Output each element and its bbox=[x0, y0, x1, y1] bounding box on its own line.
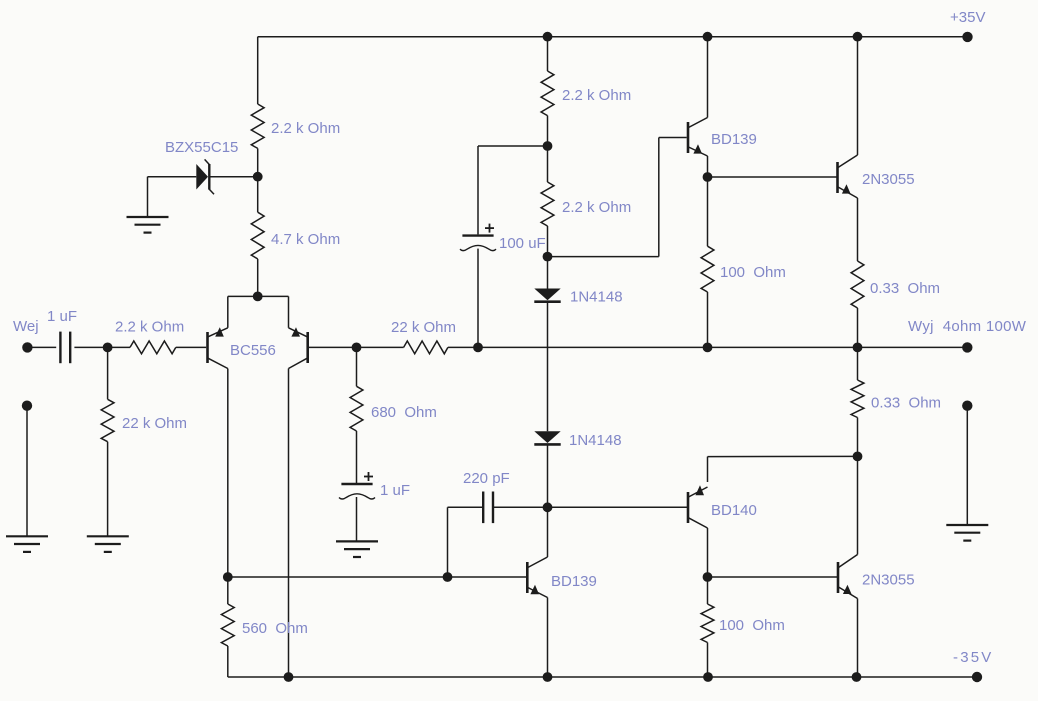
resistor R10 0.33 Ohm upper bbox=[851, 261, 864, 308]
svg-text:100 Ohm: 100 Ohm bbox=[720, 264, 786, 281]
junction feedback node bbox=[352, 343, 362, 353]
junction lower bias node bbox=[703, 572, 713, 582]
junction output rail / 100 Ohm column bbox=[703, 343, 713, 353]
wire rail to R3 bbox=[547, 37, 549, 71]
junction compensation node bbox=[543, 502, 553, 512]
wire R9 to output rail bbox=[707, 292, 709, 347]
junction Q3 emitter node bbox=[703, 172, 713, 182]
junction BC556 emitters node bbox=[253, 292, 263, 302]
wire Q2 collector to -35V rail bbox=[288, 369, 290, 678]
wire BD140 collector down bbox=[707, 528, 709, 577]
svg-text:Wyj 4ohm 100W: Wyj 4ohm 100W bbox=[908, 318, 1027, 335]
ground output bbox=[946, 525, 988, 541]
wire node to R12 bbox=[707, 577, 709, 604]
wire riser to BD139 base bbox=[658, 138, 660, 257]
ground input bias bbox=[87, 536, 129, 552]
svg-text:-35V: -35V bbox=[953, 649, 994, 666]
junction top rail / 2N3055 collector column bbox=[853, 32, 863, 42]
svg-text:0.33 Ohm: 0.33 Ohm bbox=[871, 395, 941, 412]
svg-text:560 Ohm: 560 Ohm bbox=[242, 620, 308, 637]
ground zener bbox=[127, 217, 169, 233]
wire Q1 collector down bbox=[227, 369, 229, 578]
junction Q6 emitter node bbox=[853, 452, 863, 462]
wire R12 to -35V rail bbox=[707, 643, 709, 678]
resistor R2 4.7k Ohm bbox=[251, 212, 264, 259]
wire node to Q6 base bbox=[708, 576, 838, 578]
wire D2 to node bbox=[547, 444, 549, 507]
wire Q3 emitter to node bbox=[707, 156, 709, 177]
transistor Q7 BD139 (VAS) bbox=[527, 557, 547, 598]
svg-text:22 k Ohm: 22 k Ohm bbox=[391, 319, 456, 336]
wire output rail mid bbox=[708, 346, 858, 348]
wire node to Q7 base left bbox=[228, 576, 448, 578]
wire R1 to R2 bbox=[257, 148, 259, 212]
terminal input ground bbox=[22, 401, 32, 411]
svg-text:1 uF: 1 uF bbox=[380, 482, 410, 499]
wire BD140 emitter riser bbox=[707, 457, 709, 482]
svg-text:2.2 k Ohm: 2.2 k Ohm bbox=[562, 199, 631, 216]
wire C3 top leg bbox=[477, 146, 479, 234]
svg-text:4.7 k Ohm: 4.7 k Ohm bbox=[271, 231, 340, 248]
wire node down to R6 bbox=[107, 347, 109, 399]
capacitor C4 220 pF bbox=[483, 492, 493, 524]
resistor R1 2.2k Ohm bbox=[251, 104, 264, 148]
wire R13 to -35V rail bbox=[227, 646, 229, 677]
transistor Q3 BD139 (upper driver) bbox=[688, 118, 708, 157]
terminal +35V bbox=[962, 32, 972, 42]
wire output rail to R11 bbox=[857, 347, 859, 380]
svg-text:2.2 k Ohm: 2.2 k Ohm bbox=[562, 87, 631, 104]
svg-text:680 Ohm: 680 Ohm bbox=[371, 404, 437, 421]
wire Q1 emitter drop bbox=[227, 296, 229, 327]
capacitor C3 100 uF bootstrap bbox=[460, 224, 496, 251]
ground input terminal bbox=[6, 536, 48, 552]
capacitor C1 1 uF input bbox=[60, 332, 70, 364]
svg-text:BD140: BD140 bbox=[711, 502, 757, 519]
wire C2 to ground bbox=[356, 497, 358, 541]
svg-text:BD139: BD139 bbox=[551, 573, 597, 590]
wire Q6 emitter to -35V rail bbox=[857, 599, 859, 678]
junction output rail / 0.33 Ohm column bbox=[853, 343, 863, 353]
junction VAS feed node bbox=[543, 252, 553, 262]
wire Q6 collector to node bbox=[857, 456, 859, 554]
wire output rail left bbox=[478, 346, 708, 348]
junction zener node bbox=[253, 172, 263, 182]
wire node to Q2 emitter bbox=[258, 295, 289, 297]
wire R5 to Q1 base bbox=[176, 346, 206, 348]
junction bootstrap cap node bbox=[543, 141, 553, 151]
svg-text:100 Ohm: 100 Ohm bbox=[719, 617, 785, 634]
wire node to Q1 emitter bbox=[228, 295, 258, 297]
svg-text:1N4148: 1N4148 bbox=[569, 432, 622, 449]
svg-text:2.2 k Ohm: 2.2 k Ohm bbox=[115, 319, 184, 336]
wire R10 to output rail bbox=[857, 308, 859, 347]
wire Q7 emitter to -35V rail bbox=[547, 598, 549, 678]
svg-text:+35V: +35V bbox=[950, 9, 985, 26]
resistor R12 100 Ohm lower bbox=[701, 604, 714, 643]
wire Q7 collector to node bbox=[547, 507, 549, 557]
wire -35V bottom rail bbox=[228, 676, 977, 678]
resistor R11 0.33 Ohm lower bbox=[851, 380, 864, 418]
diode D2 1N4148 bbox=[534, 431, 560, 444]
wire C4 leg down bbox=[447, 507, 449, 577]
junction -35V rail / Q6 emitter bbox=[852, 672, 862, 682]
wire node to R5 bbox=[108, 346, 130, 348]
wire node to C3 bbox=[478, 145, 548, 147]
junction C4 node bbox=[443, 572, 453, 582]
transistor Q4 2N3055 (upper output) bbox=[838, 155, 858, 198]
wire input to C1 bbox=[27, 346, 56, 348]
svg-text:Wej: Wej bbox=[13, 318, 39, 335]
resistor R7 22k Ohm feedback bbox=[404, 341, 448, 354]
svg-text:2N3055: 2N3055 bbox=[862, 572, 915, 589]
wire +35V top rail bbox=[258, 36, 968, 38]
wire node down to R8 bbox=[356, 347, 358, 386]
svg-text:BC556: BC556 bbox=[230, 342, 276, 359]
junction -35V rail / Q7 emitter bbox=[543, 672, 553, 682]
svg-text:BD139: BD139 bbox=[711, 131, 757, 148]
diode D1 1N4148 bbox=[534, 289, 560, 302]
svg-text:1 uF: 1 uF bbox=[47, 308, 77, 325]
wire node to BD140 emitter bbox=[708, 455, 858, 457]
wire C1 to node bbox=[74, 346, 107, 348]
svg-text:22 k Ohm: 22 k Ohm bbox=[122, 415, 187, 432]
wire Q3 collector to +35V bbox=[707, 37, 709, 118]
wire R4 to node bbox=[547, 226, 549, 257]
wire Q2 emitter drop bbox=[288, 296, 290, 327]
wire node toward BD139 base bbox=[548, 256, 659, 258]
junction top rail / R3 column bbox=[543, 32, 553, 42]
svg-text:220 pF: 220 pF bbox=[463, 470, 510, 487]
wire zener cathode to node bbox=[209, 176, 253, 178]
terminal -35V bbox=[972, 672, 982, 682]
transistor Q5 BD140 (lower driver) bbox=[688, 485, 708, 528]
wire node to R7 bbox=[357, 346, 404, 348]
wire output rail right bbox=[858, 346, 968, 348]
wire input ground terminal bbox=[26, 406, 28, 537]
wire R2 to emitter node bbox=[257, 259, 259, 297]
svg-text:0.33 Ohm: 0.33 Ohm bbox=[870, 280, 940, 297]
wire R3 to R4 bbox=[547, 116, 549, 182]
svg-text:2.2 k Ohm: 2.2 k Ohm bbox=[271, 120, 340, 137]
capacitor C2 1 uF feedback bbox=[339, 472, 375, 499]
zener diode D3 BZX55C15 bbox=[196, 159, 214, 194]
svg-text:1N4148: 1N4148 bbox=[570, 289, 623, 306]
wire node down to R9 bbox=[707, 177, 709, 246]
ground feedback bbox=[336, 541, 378, 557]
wire top rail to R1 bbox=[257, 37, 259, 104]
wire node to D1 bbox=[547, 257, 549, 289]
wire zener to ground bbox=[147, 177, 149, 217]
junction top rail / BD139 collector column bbox=[703, 32, 713, 42]
wire node to R13 bbox=[227, 577, 229, 604]
resistor R5 2.2k Ohm series bbox=[130, 341, 176, 354]
svg-text:100 uF: 100 uF bbox=[499, 235, 546, 252]
terminal output ground bbox=[962, 401, 972, 411]
resistor R9 100 Ohm upper bbox=[701, 246, 714, 292]
wire D1 to D2 (crosses output rail) bbox=[547, 301, 549, 431]
resistor R6 22k Ohm to ground bbox=[101, 399, 114, 441]
junction input bias node bbox=[103, 343, 113, 353]
wire Q4 emitter to R10 bbox=[857, 198, 859, 261]
resistor R4 2.2k Ohm bbox=[541, 182, 554, 226]
wire node to BD140 base bbox=[548, 506, 688, 508]
wire R8 to C2 bbox=[356, 431, 358, 484]
junction bootstrap node bbox=[473, 343, 483, 353]
resistor R3 2.2k Ohm bbox=[541, 71, 554, 116]
wire Q4 collector to +35V bbox=[857, 37, 859, 155]
resistor R13 560 Ohm bbox=[221, 604, 234, 646]
wire R6 to ground bbox=[107, 442, 109, 537]
wire zener anode bbox=[148, 176, 197, 178]
wire C3 bottom leg bbox=[477, 249, 479, 348]
wire Q2 base to node bbox=[309, 346, 357, 348]
wire C4 to node bbox=[493, 506, 548, 508]
terminal Wyj output bbox=[962, 342, 972, 352]
junction Q1 collector / R13 node bbox=[223, 572, 233, 582]
transistor Q1 BC556 (left) bbox=[208, 327, 228, 368]
junction -35V rail / Q2 collector bbox=[284, 672, 294, 682]
svg-text:BZX55C15: BZX55C15 bbox=[165, 139, 238, 156]
resistor R8 680 Ohm bbox=[350, 386, 363, 431]
wire output ground drop bbox=[966, 406, 968, 525]
transistor Q6 2N3055 (lower output) bbox=[838, 555, 858, 599]
wire R11 to node bbox=[857, 418, 859, 457]
junction -35V rail / R12 bbox=[703, 672, 713, 682]
wire node to Q7 base bbox=[448, 576, 527, 578]
wire to BD139 base bbox=[659, 137, 687, 139]
terminal Wej input bbox=[22, 342, 32, 352]
transistor Q2 BC556 (right) bbox=[289, 327, 308, 368]
wire C4 left leg bbox=[448, 506, 484, 508]
svg-text:2N3055: 2N3055 bbox=[862, 171, 915, 188]
wire R7 to node bbox=[448, 346, 478, 348]
wire to Q4 base bbox=[708, 176, 837, 178]
